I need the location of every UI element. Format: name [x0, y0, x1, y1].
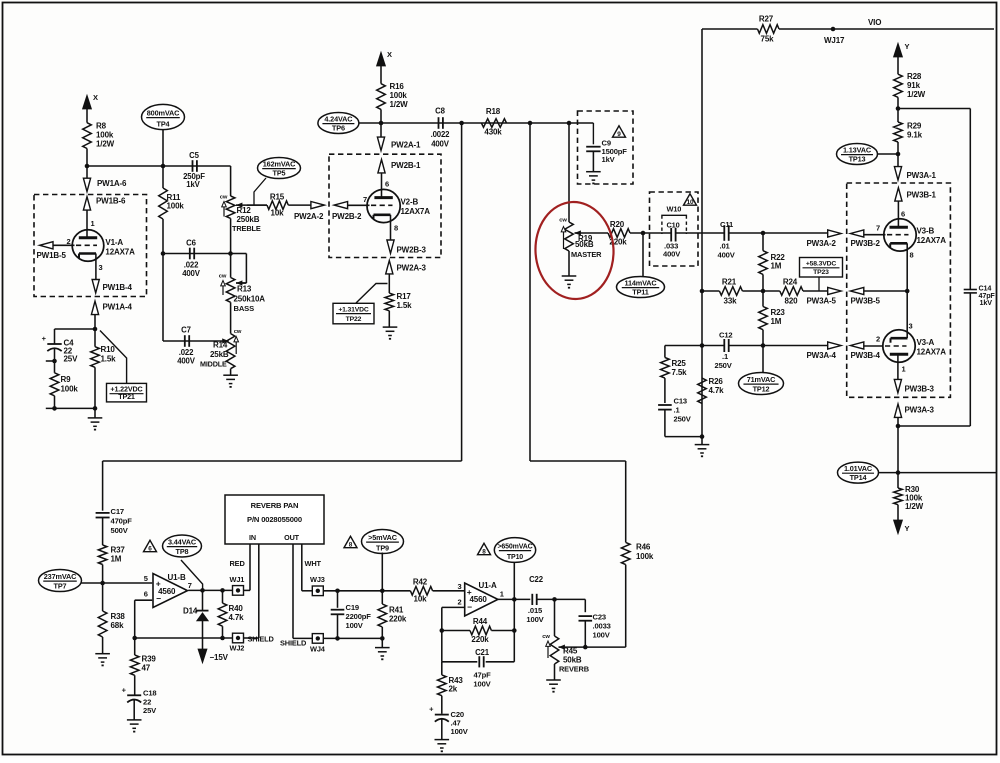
svg-text:PW2A-1: PW2A-1 [391, 141, 421, 150]
node shield row [220, 636, 225, 641]
node Y arrow down [897, 505, 899, 520]
svg-text:1: 1 [902, 365, 906, 374]
svg-text:237mVAC: 237mVAC [44, 572, 77, 581]
svg-text:1: 1 [91, 219, 95, 228]
svg-text:.01: .01 [720, 242, 731, 251]
svg-text:MASTER: MASTER [571, 250, 602, 259]
connector PW2B-2 [334, 202, 347, 209]
resistor R29 [894, 122, 903, 142]
svg-text:12AX7A: 12AX7A [917, 348, 947, 357]
feedback corner R27 [701, 29, 703, 445]
node R44 right [512, 628, 517, 633]
svg-text:V3-A: V3-A [917, 338, 935, 347]
wire presence row [898, 425, 970, 427]
svg-text:500V: 500V [111, 526, 129, 535]
svg-text:C8: C8 [435, 107, 445, 116]
capacitor C10 [670, 228, 672, 242]
svg-text:U1-B: U1-B [168, 573, 186, 582]
svg-text:8: 8 [394, 224, 398, 233]
connector PW3B-2 [850, 230, 863, 237]
svg-text:WJ1: WJ1 [230, 575, 245, 584]
svg-text:R8: R8 [96, 122, 107, 131]
testpoint TP10 oval [494, 538, 535, 563]
svg-text:100k: 100k [167, 202, 185, 211]
testpoint TP14 oval [838, 462, 879, 483]
wire C23 drop [584, 599, 586, 612]
svg-text:V2-B: V2-B [401, 198, 419, 207]
svg-text:R28: R28 [907, 72, 922, 81]
svg-text:7: 7 [363, 195, 367, 204]
resistor R22 [759, 251, 768, 275]
svg-text:R46: R46 [636, 543, 651, 552]
dashed box C10/W10 [650, 192, 699, 266]
node R44 left [440, 628, 445, 633]
svg-text:1/2W: 1/2W [96, 140, 115, 149]
node R18/dry line [528, 121, 533, 126]
node TP14 [896, 470, 901, 475]
svg-text:100V: 100V [451, 727, 469, 736]
V3-B plate [890, 226, 908, 229]
wire R27 row [702, 28, 758, 30]
svg-text:100k: 100k [96, 131, 114, 140]
svg-text:100k: 100k [61, 385, 79, 394]
node R41 top [380, 589, 385, 594]
capacitor C14 [964, 289, 977, 291]
svg-text:OUT: OUT [284, 533, 299, 542]
wire IN shield pin [258, 544, 260, 638]
node C12/R23 [761, 343, 766, 348]
wire C7 row [163, 340, 229, 342]
warning triangle 8 (TP10) [478, 543, 491, 554]
svg-text:P/N 0028055000: P/N 0028055000 [247, 515, 302, 524]
svg-text:R42: R42 [413, 578, 428, 587]
svg-text:R14: R14 [213, 341, 228, 350]
wire shield row [135, 637, 233, 639]
svg-text:.1: .1 [722, 352, 729, 361]
svg-text:50kB: 50kB [563, 656, 582, 665]
wire R12 wiper to R15 [247, 204, 267, 206]
svg-text:C7: C7 [181, 326, 191, 335]
svg-text:cw: cw [220, 195, 228, 201]
capacitor C6 [189, 248, 191, 260]
svg-text:TP4: TP4 [157, 119, 171, 128]
wire TP13 to node [878, 153, 899, 155]
tube V3-B envelope [884, 219, 916, 251]
svg-text:25V: 25V [64, 355, 79, 364]
connector PW3A-5 [828, 287, 841, 294]
svg-text:−15V: −15V [210, 653, 229, 662]
potentiometer R13 BASS [230, 254, 232, 278]
svg-text:400V: 400V [177, 357, 196, 366]
potentiometer R12 TREBLE [226, 196, 235, 218]
wire C23 bottom [584, 621, 586, 648]
V3-A grid wire [863, 345, 883, 347]
svg-text:7: 7 [188, 581, 192, 590]
svg-text:9: 9 [617, 131, 621, 138]
svg-text:W10: W10 [667, 205, 682, 214]
potentiometer R45 REVERB [550, 636, 559, 664]
svg-text:TP6: TP6 [332, 123, 345, 132]
capacitor C22 [531, 594, 533, 605]
svg-text:Y: Y [905, 42, 910, 51]
tube V2-B envelope [367, 189, 400, 222]
svg-text:220k: 220k [389, 615, 407, 624]
svg-text:4560: 4560 [470, 595, 488, 604]
svg-text:400V: 400V [431, 140, 450, 149]
svg-text:WJ4: WJ4 [310, 645, 326, 654]
connector PW2A-2 [311, 202, 324, 209]
node X supply arrow (V2) [377, 52, 386, 66]
node C8/reverb send [459, 121, 464, 126]
svg-text:470pF: 470pF [111, 517, 133, 526]
svg-text:C18: C18 [143, 689, 156, 698]
node R22 top [761, 231, 766, 236]
resistor R18 [481, 119, 506, 128]
capacitor C21 [442, 661, 478, 663]
svg-text:1/2W: 1/2W [390, 100, 409, 109]
svg-text:X: X [387, 50, 392, 59]
svg-text:12AX7A: 12AX7A [917, 236, 947, 245]
wire R9 bottom [54, 396, 56, 409]
svg-text:6: 6 [148, 546, 152, 553]
ground PI tail [695, 444, 710, 446]
svg-text:R13: R13 [237, 285, 252, 294]
resistor R25 [664, 346, 666, 358]
svg-text:PW3A-5: PW3A-5 [807, 297, 837, 306]
testpoint TP9 oval [362, 530, 404, 554]
node R40 top [220, 588, 225, 593]
wire C4 to R9 [54, 349, 56, 373]
testpoint TP13 oval [837, 144, 878, 165]
svg-text:1M: 1M [771, 317, 782, 326]
svg-text:1kV: 1kV [186, 180, 200, 189]
warning triangle 9 [613, 126, 626, 137]
connector PW3B-3 [894, 379, 901, 392]
svg-text:Y: Y [905, 524, 910, 533]
svg-text:400V: 400V [182, 269, 201, 278]
svg-text:TP7: TP7 [54, 581, 67, 590]
svg-text:V3-B: V3-B [917, 227, 935, 236]
ground R38 [102, 637, 104, 654]
svg-text:PW3B-1: PW3B-1 [907, 191, 937, 200]
svg-text:TREBLE: TREBLE [232, 224, 261, 233]
capacitor C20 [441, 696, 443, 714]
svg-text:9.1k: 9.1k [907, 131, 923, 140]
svg-text:100k: 100k [390, 91, 408, 100]
wire D14 to -15V [202, 621, 204, 649]
svg-text:cw: cw [559, 218, 567, 224]
wire U1-B pin6 [135, 599, 153, 601]
node C22/R45 [552, 597, 557, 602]
resistor R16 [377, 84, 386, 110]
svg-text:2k: 2k [449, 685, 458, 694]
svg-text:R39: R39 [142, 655, 157, 664]
svg-text:4.7k: 4.7k [709, 386, 725, 395]
wire feedback takeoff [898, 108, 970, 110]
dashed box V2 [329, 154, 441, 257]
capacitor C12 [723, 339, 725, 352]
wire R21 to R24 [742, 290, 779, 292]
svg-text:3: 3 [909, 322, 913, 331]
testpoint TP8 oval [163, 535, 202, 557]
ground R17 [388, 311, 390, 327]
svg-text:R16: R16 [390, 82, 405, 91]
wire TP4 stem [162, 130, 164, 166]
svg-text:X: X [93, 93, 98, 102]
svg-text:PW2A-2: PW2A-2 [294, 212, 324, 221]
svg-text:800mVAC: 800mVAC [147, 108, 180, 117]
wire R27 to border [779, 28, 994, 30]
svg-text:C17: C17 [111, 507, 124, 516]
jack WJ3 [312, 586, 323, 596]
svg-text:TP10: TP10 [507, 554, 523, 561]
node U1-B out [200, 588, 205, 593]
wire R42 to U1-A [433, 590, 465, 592]
power -15V arrow [198, 649, 207, 663]
svg-text:25kB: 25kB [210, 350, 229, 359]
svg-text:68k: 68k [111, 621, 125, 630]
wire TP10 stem [513, 562, 515, 599]
V3-A cathode [891, 337, 908, 340]
svg-text:10k: 10k [271, 209, 285, 218]
reverb pan box [225, 495, 324, 544]
svg-text:100V: 100V [593, 631, 611, 640]
resistor R26 [698, 378, 707, 403]
svg-text:6: 6 [385, 180, 389, 189]
svg-text:25V: 25V [143, 706, 157, 715]
resistor R23 [759, 307, 768, 330]
TP5 leader line [254, 178, 266, 205]
ground R41 [381, 638, 383, 647]
svg-text:C10: C10 [667, 220, 680, 229]
svg-text:R10: R10 [101, 345, 116, 354]
svg-text:C13: C13 [674, 397, 687, 406]
dashed box V3 [847, 183, 951, 397]
connector PW3A-1 [897, 154, 899, 167]
resistor R10 [94, 329, 96, 347]
svg-text:R41: R41 [389, 606, 404, 615]
wire R12 to node [230, 218, 232, 253]
svg-text:114mVAC: 114mVAC [624, 278, 657, 287]
svg-text:R23: R23 [771, 308, 786, 317]
wire dry line across [530, 460, 626, 462]
V2-B cathode [374, 214, 391, 217]
wire R28 to node [897, 97, 899, 108]
resistor R20 [608, 229, 630, 238]
svg-text:SHIELD: SHIELD [280, 639, 307, 648]
svg-text:10: 10 [687, 199, 694, 206]
svg-text:+58.3VDC: +58.3VDC [806, 261, 837, 268]
potentiometer R19 MASTER [565, 222, 574, 251]
wire WJ1 to RED pin [244, 589, 251, 591]
wire R13 to R14 [230, 302, 232, 333]
node R28/R29 [896, 106, 901, 111]
wire C17 to R37 [102, 518, 104, 546]
svg-text:TP9: TP9 [376, 543, 389, 552]
svg-text:1: 1 [500, 590, 504, 599]
connector PW2B-3 [390, 229, 392, 240]
testpoint TP7 oval [39, 570, 82, 592]
svg-text:+1.31VDC: +1.31VDC [338, 306, 369, 313]
wire shield bottom row [324, 637, 383, 639]
wire U1-A output [498, 598, 530, 600]
wire R15 to PW2A-2 [288, 204, 313, 206]
capacitor C11 [723, 225, 725, 241]
node R21/R22 [761, 289, 766, 294]
node V3 cathodes [905, 289, 910, 294]
connector PW2A-1 [380, 123, 382, 138]
connector PW3B-4 [850, 342, 863, 349]
svg-text:TP14: TP14 [850, 473, 868, 482]
svg-text:R12: R12 [237, 206, 252, 215]
svg-text:2: 2 [876, 335, 880, 344]
resistor R38 [102, 583, 104, 611]
connector PW3B-5 [850, 287, 863, 294]
dashed box C9 [578, 111, 634, 184]
svg-text:1M: 1M [111, 555, 122, 564]
resistor R15 [267, 201, 288, 210]
wire R16 to rail [380, 109, 382, 123]
testpoint TP22 callout [356, 284, 388, 304]
resistor R39 [134, 638, 136, 655]
svg-text:REVERB PAN: REVERB PAN [251, 501, 299, 510]
wire C10 to C11 [676, 232, 725, 234]
svg-text:1.5k: 1.5k [101, 355, 117, 364]
svg-text:8: 8 [482, 549, 486, 556]
V3-A plate [890, 353, 908, 356]
svg-text:.0033: .0033 [593, 622, 611, 631]
resistor R30 [897, 473, 899, 488]
warning triangle 8 (TP9) [344, 536, 357, 547]
wire OUT shield pin [292, 544, 294, 638]
wire C22 to node [537, 598, 586, 600]
svg-text:PW3B-2: PW3B-2 [851, 239, 881, 248]
capacitor C18 [134, 675, 136, 694]
capacitor C4 [47, 343, 61, 345]
svg-text:220k: 220k [471, 635, 489, 644]
wire R29 to node [897, 142, 899, 154]
testpoint TP6 oval [318, 113, 359, 134]
connector PW1B-5 [40, 242, 53, 249]
svg-text:400V: 400V [718, 251, 736, 260]
svg-text:R15: R15 [270, 193, 285, 202]
op-amp U1-B [153, 574, 188, 608]
svg-text:3: 3 [457, 582, 461, 591]
svg-text:1kV: 1kV [980, 298, 993, 307]
svg-text:4560: 4560 [158, 587, 176, 596]
warning triangle 10 [684, 194, 697, 205]
V1-A cathode [79, 252, 96, 255]
svg-text:cw: cw [234, 329, 242, 335]
svg-text:1/2W: 1/2W [905, 502, 924, 511]
resistor R44 [442, 630, 470, 632]
node C6 left [161, 251, 166, 256]
svg-text:U1-A: U1-A [479, 581, 497, 590]
capacitor C7 [184, 335, 186, 347]
wire V3A plate down [897, 426, 899, 473]
svg-text:RED: RED [230, 559, 246, 568]
svg-text:1.13VAC: 1.13VAC [843, 145, 872, 154]
svg-text:>650mVAC: >650mVAC [497, 543, 532, 550]
capacitor C9 [592, 123, 594, 144]
svg-text:71mVAC: 71mVAC [747, 375, 776, 384]
svg-text:C21: C21 [475, 648, 490, 657]
svg-text:cw: cw [219, 274, 227, 280]
wire R12 drop [230, 166, 232, 196]
capacitor C5 [192, 160, 194, 172]
svg-text:R17: R17 [397, 292, 412, 301]
capacitor C17 [102, 461, 104, 511]
svg-text:250k10A: 250k10A [234, 295, 266, 304]
svg-text:12AX7A: 12AX7A [401, 207, 431, 216]
svg-text:2: 2 [457, 598, 461, 607]
svg-text:WJ3: WJ3 [310, 575, 325, 584]
svg-text:1kV: 1kV [602, 155, 616, 164]
potentiometer R14 MIDDLE [226, 334, 235, 369]
testpoint TP11 oval [617, 277, 665, 298]
wire reverb rail [103, 460, 462, 462]
ground V1 cathode network [94, 408, 96, 418]
connector PW3A-3 [894, 404, 901, 417]
svg-text:PW1B-6: PW1B-6 [96, 197, 126, 206]
svg-text:TP23: TP23 [813, 269, 829, 276]
resistor R43 [441, 662, 443, 675]
wire R11 to C6 node [162, 219, 164, 254]
wire plate rail y166 [87, 165, 231, 167]
capacitor C19 [337, 591, 339, 608]
resistor R8 [83, 123, 92, 149]
svg-text:R37: R37 [111, 546, 126, 555]
svg-text:SHIELD: SHIELD [248, 635, 275, 644]
testpoint TP12 stem [762, 346, 764, 373]
svg-text:6: 6 [901, 210, 905, 219]
svg-text:430k: 430k [484, 128, 502, 137]
svg-text:TP8: TP8 [176, 547, 189, 556]
wire R46 drop [625, 461, 627, 542]
resistor R9 [50, 373, 59, 396]
wire C11 to PW3A-2 [729, 232, 830, 234]
svg-text:820: 820 [785, 297, 799, 306]
svg-text:100V: 100V [346, 621, 364, 630]
wire TP9 stem [381, 553, 383, 591]
node R45 wiper row [583, 645, 588, 650]
svg-text:>5mVAC: >5mVAC [368, 533, 398, 542]
wire to C4 branch [55, 328, 96, 330]
node Y supply arrow (V3) [894, 43, 903, 57]
svg-text:R40: R40 [229, 604, 244, 613]
node WJ17 [831, 27, 836, 32]
resistor R46 [621, 542, 630, 564]
svg-text:75k: 75k [761, 35, 775, 44]
svg-text:8: 8 [349, 542, 353, 549]
svg-text:.1: .1 [674, 406, 681, 415]
svg-text:PW1B-4: PW1B-4 [103, 283, 133, 292]
resistor R42 [410, 587, 432, 596]
node TP13 [896, 152, 901, 157]
svg-text:C19: C19 [346, 603, 359, 612]
connector PW1B-6 [83, 197, 90, 210]
svg-text:PW2B-2: PW2B-2 [332, 212, 362, 221]
wire R10 bottom [94, 367, 96, 408]
svg-text:PW3B-5: PW3B-5 [851, 297, 881, 306]
svg-text:250V: 250V [715, 361, 733, 370]
wire OUT shield to WJ4 [293, 637, 312, 639]
svg-text:5: 5 [144, 574, 148, 583]
connector PW1A-6 [86, 166, 88, 178]
ground C20 [441, 719, 443, 739]
wire R13 wiper feedback [231, 253, 247, 255]
svg-text:MIDDLE: MIDDLE [200, 360, 227, 369]
